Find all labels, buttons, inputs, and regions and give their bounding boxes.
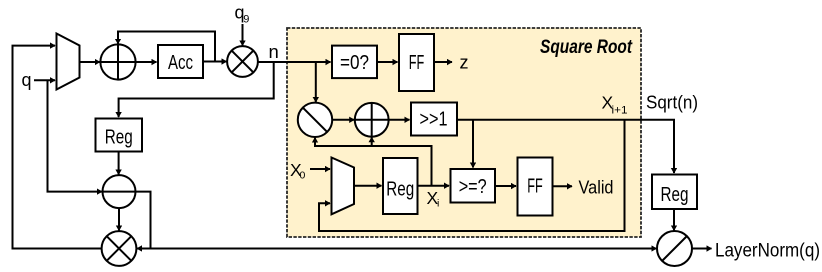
flip-flop FF2 — [518, 158, 553, 216]
label q9 — [235, 3, 250, 26]
svg-text:0: 0 — [300, 170, 306, 182]
adder A1 — [100, 44, 135, 79]
wire: Xi from register R2 to comparator >=? — [418, 185, 450, 187]
svg-text:>=?: >=? — [459, 176, 487, 198]
divider D2 — [657, 231, 692, 266]
label Square Root — [540, 37, 633, 58]
svg-text:9: 9 — [243, 14, 249, 26]
label LayerNorm(q) — [715, 240, 820, 261]
wire: Xi+1 branch down into comparator >=? — [472, 120, 474, 168]
svg-text:Valid: Valid — [579, 178, 614, 198]
wire: adder A2 output right branch down — [136, 192, 151, 249]
wire: Xi+1 feedback loop into mux M2 — [319, 120, 625, 231]
label Xi — [427, 188, 440, 210]
wire: adder A3 to shifter — [389, 119, 410, 121]
divider D1 — [298, 103, 332, 137]
flip-flop FF1 — [399, 34, 434, 91]
label z — [460, 53, 469, 73]
wire: accumulator feedback loop into adder A1 top — [118, 32, 215, 62]
square-root unit dashed enclosure — [287, 28, 641, 237]
label X0 — [290, 160, 306, 182]
wire: register R1 down into adder A2 — [118, 152, 120, 175]
svg-text:Reg: Reg — [386, 179, 414, 201]
svg-text:Reg: Reg — [105, 127, 133, 149]
wire: X0 into mux M2 — [310, 168, 330, 170]
label Valid — [579, 178, 614, 198]
subtractor A2 — [103, 175, 136, 208]
register R1 — [96, 119, 143, 152]
wire: Acc output to multiplier X1 — [203, 61, 227, 63]
svg-text:i+1: i+1 — [612, 105, 628, 117]
wire: q input to mux M1 — [34, 79, 55, 81]
wire: comparator >=? to flip-flop FF2 — [495, 185, 516, 187]
label q — [22, 70, 32, 90]
adder A3 — [355, 103, 389, 137]
label Xi+1 — [602, 93, 628, 117]
wire: n branch down into register R1 — [119, 62, 274, 117]
register Acc — [158, 45, 203, 78]
wire: adder A1 to Acc — [136, 61, 157, 63]
svg-text:Square Root: Square Root — [540, 37, 633, 58]
wire: divider D1 to adder A3 — [332, 119, 354, 121]
comparator >=? — [451, 169, 496, 203]
multiplier X2 — [102, 231, 137, 266]
wire: divider D2 to LayerNorm output — [692, 248, 712, 250]
comparator =0? — [332, 46, 377, 79]
wire: q9 down into multiplier X1 — [242, 24, 244, 46]
label n — [269, 41, 279, 62]
svg-text:=0?: =0? — [340, 52, 369, 74]
wire: Xi stub into divider D1 bottom — [314, 138, 316, 147]
svg-text:LayerNorm(q): LayerNorm(q) — [715, 240, 820, 261]
svg-text:FF: FF — [409, 52, 425, 74]
wire: branch along bottom to output divider D2 — [151, 248, 657, 250]
wire: q rail down to adder A2 — [48, 80, 102, 191]
svg-text:n: n — [269, 41, 279, 62]
svg-text:Reg: Reg — [661, 184, 689, 206]
label Sqrt(n) — [646, 93, 698, 113]
svg-text:Sqrt(n): Sqrt(n) — [646, 93, 698, 113]
wire: FF1 to z output — [434, 61, 452, 63]
wire: mux M1 output to adder A1 — [80, 61, 100, 63]
wire: branch into multiplier X2 right input — [137, 248, 151, 250]
wire: register R3 down into divider D2 — [673, 209, 675, 230]
svg-text:z: z — [460, 53, 469, 73]
shifter >>1 — [411, 103, 457, 136]
wire: Xi+1 bus from shifter right and down into register R3 — [457, 120, 674, 173]
svg-text:FF: FF — [527, 176, 543, 198]
wire: =0? to flip-flop FF1 — [377, 61, 398, 63]
mux M1 — [57, 34, 80, 90]
wire: mux M2 to register R2 — [354, 185, 382, 187]
multiplier X1 — [227, 46, 258, 77]
wire: adder A2 output down into multiplier X2 — [118, 208, 120, 230]
svg-text:Acc: Acc — [168, 52, 193, 74]
register R3 — [652, 175, 697, 210]
svg-text:i: i — [437, 198, 439, 210]
wire: n branch down into divider D1 — [315, 62, 317, 102]
wire: Xi branch up under A3 and D1 — [315, 146, 432, 186]
svg-text:>>1: >>1 — [420, 109, 448, 131]
svg-text:q: q — [22, 70, 32, 90]
register R2 — [383, 158, 418, 214]
wire: Xi stub into adder A3 bottom — [371, 137, 373, 147]
mux M2 — [332, 158, 355, 215]
wire: n bus into =0? comparator — [258, 61, 331, 63]
wire: multiplier X2 output feedback up left rail into mux M1 — [13, 46, 102, 249]
wire: FF2 to Valid output — [553, 185, 573, 187]
